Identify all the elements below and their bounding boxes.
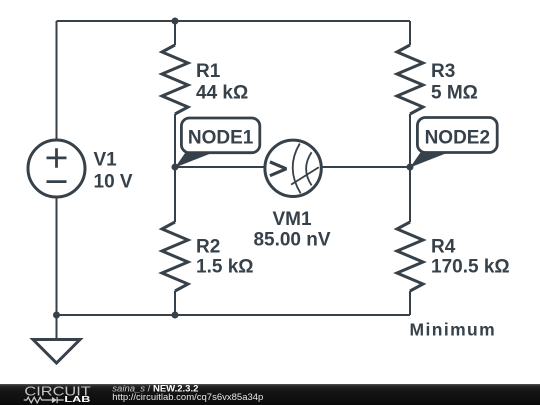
junction dot R2 bottom	[172, 312, 179, 319]
svg-text:NODE2: NODE2	[425, 127, 490, 148]
wire R3 top lead	[409, 21, 411, 45]
footer bar	[0, 384, 540, 405]
logo squiggle resistor+diode	[24, 397, 64, 403]
wire R4 bottom lead	[409, 291, 411, 315]
wire R3 bottom lead to NODE2	[409, 114, 411, 167]
wire ground lead	[56, 315, 58, 340]
svg-text:85.00 nV: 85.00 nV	[253, 230, 330, 251]
resistor R4	[397, 222, 423, 291]
resistor R2	[162, 222, 188, 291]
svg-text:170.5 kΩ: 170.5 kΩ	[431, 257, 510, 278]
node NODE2 flag	[410, 118, 497, 168]
junction dot top R1	[172, 18, 179, 25]
wire NODE1 to VM1 left	[175, 166, 266, 168]
svg-text:R4: R4	[431, 237, 456, 258]
svg-text:http://circuitlab.com/cq7s6vx8: http://circuitlab.com/cq7s6vx85a34p	[112, 392, 263, 403]
resistor R3	[397, 45, 423, 114]
node NODE1 flag	[175, 118, 260, 168]
voltmeter VM1	[265, 140, 321, 196]
wire R1 bottom lead to NODE1	[174, 114, 176, 167]
wire VM1 right to NODE2	[322, 166, 411, 168]
svg-text:LAB: LAB	[64, 394, 90, 404]
junction dot NODE1	[172, 164, 179, 171]
svg-text:R1: R1	[196, 61, 221, 82]
wire top rail	[57, 20, 411, 22]
svg-text:1.5 kΩ: 1.5 kΩ	[196, 257, 254, 278]
junction dot ground	[53, 312, 60, 319]
wire NODE1 to R2 top	[174, 167, 176, 222]
wire V1 bottom to bottom rail	[56, 197, 58, 315]
wire R2 bottom lead	[174, 291, 176, 315]
wire NODE2 to R4 top	[409, 167, 411, 222]
svg-text:VM1: VM1	[272, 209, 312, 230]
svg-text:R3: R3	[431, 61, 455, 82]
resistor R1	[162, 45, 188, 114]
wire left top (V1 top to top rail)	[56, 21, 58, 140]
wire R1 top lead	[174, 21, 176, 45]
junction dot NODE2	[407, 164, 414, 171]
svg-text:10 V: 10 V	[94, 172, 133, 193]
voltage source V1	[28, 140, 85, 197]
svg-text:5 MΩ: 5 MΩ	[431, 82, 478, 103]
svg-text:R2: R2	[196, 237, 220, 258]
svg-text:44 kΩ: 44 kΩ	[196, 82, 248, 103]
svg-text:NODE1: NODE1	[188, 127, 254, 148]
wire bottom rail	[57, 314, 411, 316]
ground	[33, 340, 80, 364]
svg-text:Minimum: Minimum	[410, 320, 497, 340]
svg-text:V1: V1	[94, 150, 118, 171]
